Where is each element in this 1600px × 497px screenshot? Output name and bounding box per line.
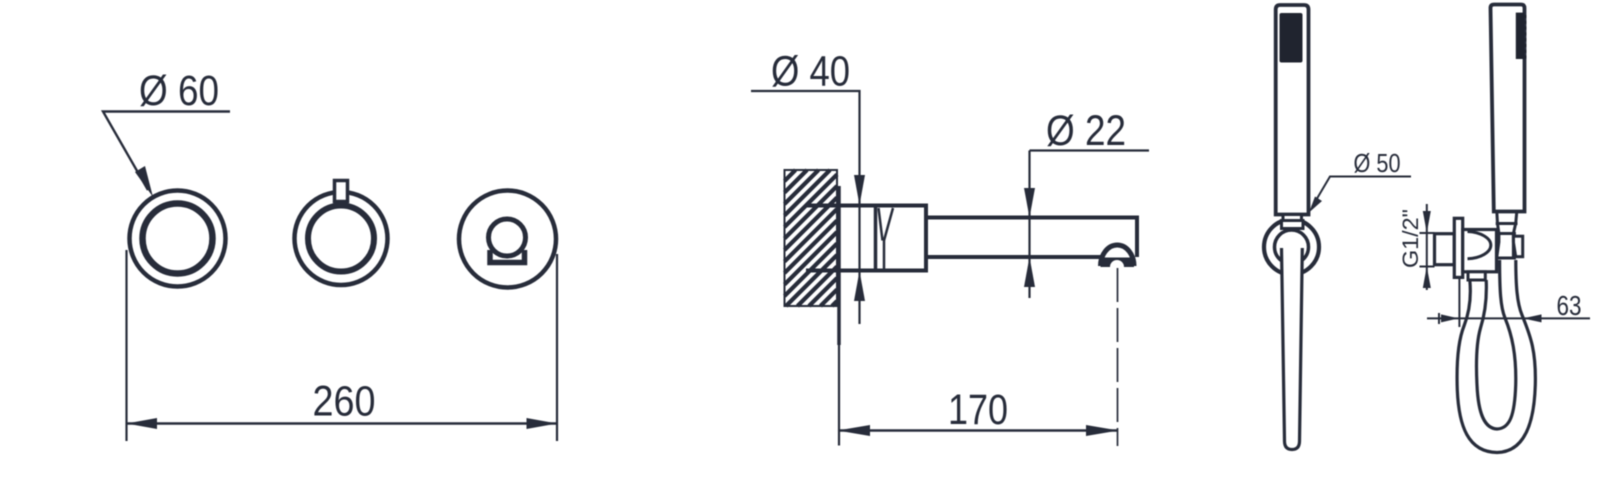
svg-text:Ø 60: Ø 60 <box>139 67 219 115</box>
svg-text:260: 260 <box>313 378 376 426</box>
svg-text:63: 63 <box>1557 290 1582 321</box>
svg-text:Ø 50: Ø 50 <box>1354 148 1401 178</box>
svg-text:170: 170 <box>948 386 1008 434</box>
svg-text:Ø 22: Ø 22 <box>1046 107 1126 155</box>
svg-text:Ø 40: Ø 40 <box>771 48 850 96</box>
svg-text:G1/2": G1/2" <box>1398 209 1423 268</box>
